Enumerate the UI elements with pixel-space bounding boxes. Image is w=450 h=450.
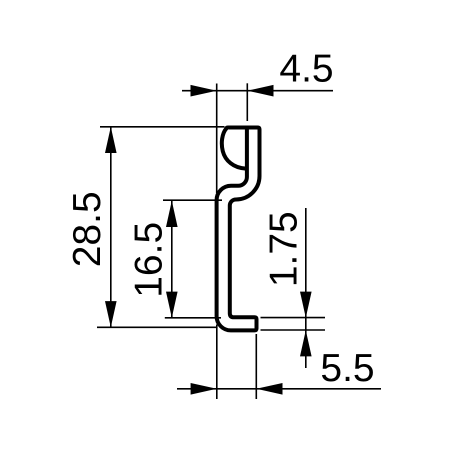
arrow 5.5 right bbox=[256, 383, 282, 395]
profile outline (rail cross-section) bbox=[217, 128, 260, 331]
svg-text:28.5: 28.5 bbox=[66, 191, 109, 267]
arrow 5.5 left bbox=[191, 383, 217, 395]
svg-text:5.5: 5.5 bbox=[320, 347, 374, 390]
dim 16.5 line bbox=[171, 201, 173, 318]
curl lip arc bbox=[222, 128, 246, 168]
arrow 4.5 left bbox=[191, 85, 217, 97]
svg-text:4.5: 4.5 bbox=[279, 48, 333, 91]
dim 16.5 ext bottom bbox=[165, 317, 221, 319]
dim 5.5 ext right bbox=[255, 334, 257, 399]
dim 28.5 ext top bbox=[100, 126, 225, 128]
arrow 28.5 bottom bbox=[105, 301, 117, 327]
arrow 4.5 right bbox=[247, 85, 273, 97]
dim 1.75 ext top bbox=[261, 317, 326, 319]
arrow 1.75 bottom bbox=[300, 330, 312, 356]
dim 4.5 ext left bbox=[216, 84, 218, 194]
dim 1.75 line bbox=[305, 208, 307, 368]
dim 16.5 ext top bbox=[163, 199, 222, 201]
dim 28.5 line bbox=[110, 127, 112, 327]
svg-text:16.5: 16.5 bbox=[127, 222, 170, 298]
dim 1.75 ext bottom bbox=[261, 329, 326, 331]
dim 4.5 ext right bbox=[246, 83, 248, 121]
dim 4.5 line bbox=[182, 90, 333, 92]
arrow 16.5 top bbox=[166, 201, 178, 227]
arrow 16.5 bottom bbox=[166, 292, 178, 318]
svg-text:1.75: 1.75 bbox=[263, 211, 306, 287]
dim 28.5 ext bottom bbox=[97, 326, 217, 328]
arrow 1.75 top bbox=[300, 292, 312, 318]
arrow 28.5 top bbox=[105, 127, 117, 153]
dim 5.5 ext left bbox=[216, 325, 218, 400]
dim 5.5 line bbox=[177, 388, 381, 390]
